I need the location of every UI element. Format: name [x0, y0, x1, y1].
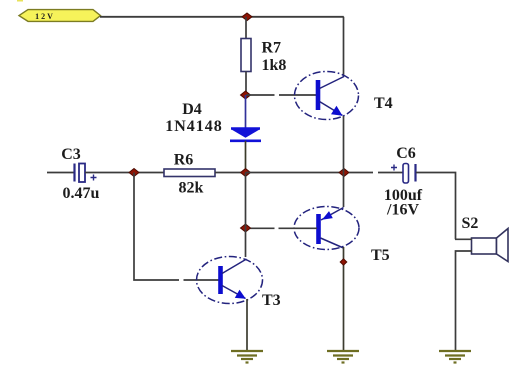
transistor T5 [294, 207, 359, 250]
resistor R7 [241, 39, 251, 72]
node junction C3 / T3 base branch [129, 169, 139, 177]
wire T4 emitter down [343, 116, 345, 172]
ground below speaker [439, 351, 471, 363]
svg-text:C3: C3 [61, 146, 81, 163]
wire R7 top stub [245, 17, 247, 39]
wire right vertical to T4 collector [343, 17, 345, 77]
wire T4 base feed [246, 94, 317, 96]
svg-text:82k: 82k [179, 180, 204, 197]
svg-text:D4: D4 [182, 101, 202, 118]
power flag 12V [19, 10, 101, 22]
svg-text:C6: C6 [396, 145, 416, 162]
wire speaker upper terminal [455, 238, 472, 240]
diode D4 [230, 129, 261, 141]
svg-text:1N4148: 1N4148 [165, 118, 223, 135]
node junction T5 base branch [241, 224, 251, 232]
wire D4 node down to T3 collector [245, 173, 247, 258]
svg-text:R7: R7 [262, 40, 282, 57]
wire T3 base branch vertical [134, 173, 220, 281]
resistor R6 [164, 169, 215, 177]
speaker S2 [472, 229, 509, 262]
wire R6 to D4 node [215, 172, 246, 174]
wire T5 base feed [246, 227, 318, 229]
wire top rail [100, 16, 344, 18]
svg-text:R6: R6 [174, 152, 194, 169]
svg-text:S2: S2 [462, 215, 479, 232]
capacitor C6 [391, 164, 416, 184]
wire R7 bottom stub [245, 72, 247, 96]
wire mid rail to T4 emitter node [246, 172, 345, 174]
wire D4 anode stub [245, 95, 247, 128]
node junction top rail / R7 [242, 13, 252, 21]
wire C6 to speaker corner [416, 173, 456, 240]
wire node to C6 [349, 172, 403, 174]
ground below T5 [327, 351, 359, 363]
wire T5 emitter up [343, 172, 345, 207]
wire speaker lower terminal [456, 251, 473, 350]
transistor T4 [295, 72, 359, 120]
node junction R7 / D4 / T4 base [241, 91, 251, 99]
svg-text:/16V: /16V [386, 202, 419, 219]
wire C3 left lead [47, 172, 74, 174]
wire T3 emitter down [246, 299, 248, 350]
svg-text:T3: T3 [262, 292, 281, 309]
transistor T3 [197, 257, 263, 304]
svg-text:T5: T5 [371, 247, 390, 264]
svg-text:12V: 12V [35, 12, 55, 21]
wire D4 cathode stub [245, 141, 247, 172]
node junction below T5 [340, 259, 347, 265]
svg-text:0.47u: 0.47u [63, 185, 100, 202]
wire C3 to R6 [85, 172, 164, 174]
svg-text:T4: T4 [374, 95, 393, 112]
node junction T4 emitter / T5 emitter / C6 [339, 169, 349, 177]
node junction R6 / D4 cathode [241, 169, 251, 177]
capacitor C3 [75, 164, 97, 183]
ground below T3 [231, 351, 263, 363]
wire T5 collector down [343, 247, 345, 350]
svg-text:1k8: 1k8 [262, 57, 287, 74]
